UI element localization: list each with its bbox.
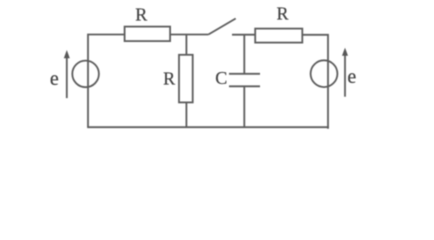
- svg-text:R: R: [277, 4, 289, 24]
- wire top-left segment: [88, 35, 125, 128]
- node A junction to R2: [185, 35, 187, 55]
- svg-text:R: R: [163, 69, 175, 89]
- wire capacitor to bottom: [243, 86, 245, 127]
- wire R1 to switch: [170, 34, 208, 36]
- svg-text:R: R: [135, 4, 147, 24]
- svg-text:e: e: [50, 68, 59, 90]
- voltage source E1 (circle): [72, 61, 99, 88]
- wire node B to capacitor: [243, 35, 245, 74]
- wire R2 to bottom: [185, 102, 187, 127]
- switch K (open arm): [208, 19, 235, 35]
- arrow of source E1: [64, 50, 70, 98]
- svg-text:C: C: [215, 68, 227, 88]
- arrow of source E2: [342, 48, 348, 97]
- voltage source E2 (circle): [311, 60, 338, 87]
- wire switch to R3: [232, 34, 255, 36]
- wire R3 to right corner: [302, 35, 328, 129]
- wire bottom: [87, 126, 329, 128]
- resistor R3: [255, 29, 302, 43]
- svg-text:e: e: [347, 66, 356, 88]
- capacitor C: [229, 74, 260, 87]
- resistor R2: [179, 55, 193, 103]
- resistor R1: [125, 27, 171, 41]
